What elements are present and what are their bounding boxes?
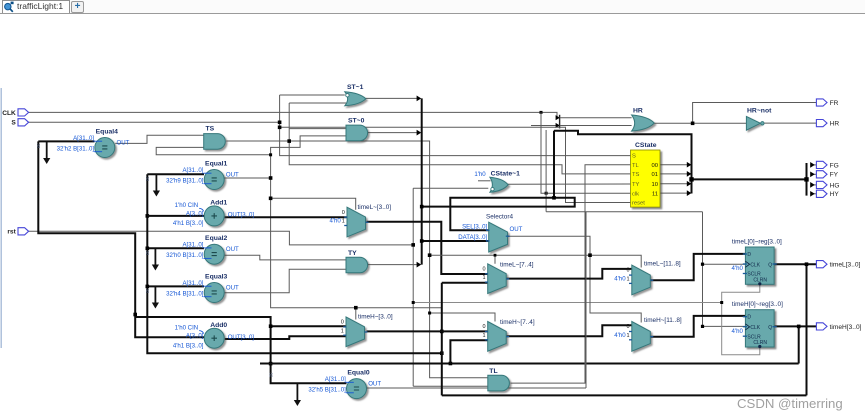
svg-text:Add1: Add1 (210, 200, 227, 207)
svg-text:Add0: Add0 (210, 322, 227, 329)
svg-text:32: 32 (145, 177, 150, 182)
svg-text:A[31..0]: A[31..0] (182, 280, 203, 287)
svg-text:32'h2 B[31..0]: 32'h2 B[31..0] (57, 146, 95, 153)
svg-text:0: 0 (342, 210, 345, 216)
svg-text:OUT: OUT (368, 380, 381, 387)
svg-text:OUT: OUT (117, 139, 130, 146)
svg-text:timeH~[7..4]: timeH~[7..4] (500, 319, 535, 326)
svg-text:01: 01 (652, 172, 658, 178)
svg-text:S: S (11, 120, 16, 127)
svg-text:1: 1 (482, 275, 485, 281)
svg-text:Equal4: Equal4 (96, 129, 119, 136)
svg-text:CState~1: CState~1 (491, 170, 520, 177)
svg-text:timeH[0]~reg[3..0]: timeH[0]~reg[3..0] (732, 301, 783, 308)
svg-text:timeL~[11..8]: timeL~[11..8] (644, 261, 681, 268)
svg-text:32: 32 (145, 251, 150, 256)
svg-text:timeL[0]~reg[3..0]: timeL[0]~reg[3..0] (732, 238, 782, 245)
svg-text:timeL~[7..4]: timeL~[7..4] (500, 262, 534, 269)
svg-text:0: 0 (482, 324, 485, 330)
svg-text:HY: HY (830, 191, 840, 198)
svg-text:OUT: OUT (226, 284, 239, 291)
svg-text:Equal3: Equal3 (205, 274, 228, 281)
svg-text:FG: FG (830, 162, 839, 169)
svg-text:TL: TL (632, 163, 640, 169)
svg-text:Equal0: Equal0 (347, 370, 370, 377)
svg-text:1: 1 (627, 333, 630, 339)
svg-text:FR: FR (830, 100, 839, 107)
svg-text:timeH~[3..0]: timeH~[3..0] (358, 314, 393, 321)
svg-text:Selector4: Selector4 (486, 213, 513, 220)
svg-text:OUT[3..0]: OUT[3..0] (228, 334, 255, 341)
svg-text:4'h0: 4'h0 (732, 265, 744, 272)
svg-text:1'h0 CIN: 1'h0 CIN (175, 324, 199, 331)
svg-text:TL: TL (489, 368, 497, 375)
svg-text:4'h0: 4'h0 (329, 218, 341, 225)
svg-text:clk: clk (632, 191, 639, 197)
svg-text:1: 1 (342, 219, 345, 225)
svg-text:OUT[3..0]: OUT[3..0] (228, 212, 255, 219)
svg-text:A[31..0]: A[31..0] (325, 376, 346, 383)
svg-text:TY: TY (348, 250, 357, 257)
svg-text:OUT: OUT (510, 226, 523, 233)
svg-text:rst: rst (7, 229, 16, 236)
svg-text:timeL[3..0]: timeL[3..0] (830, 262, 861, 269)
svg-text:4'h0: 4'h0 (614, 332, 626, 339)
svg-text:4'h1 B[3..0]: 4'h1 B[3..0] (173, 342, 204, 349)
svg-text:4'h0: 4'h0 (732, 328, 744, 335)
svg-text:0: 0 (341, 320, 344, 326)
svg-text:FY: FY (830, 172, 839, 179)
svg-text:timeH~[11..8]: timeH~[11..8] (644, 317, 682, 324)
svg-text:32: 32 (145, 289, 150, 294)
svg-text:32: 32 (269, 373, 274, 378)
svg-text:A[31..0]: A[31..0] (182, 242, 203, 249)
svg-text:00: 00 (652, 163, 658, 169)
svg-text:0: 0 (627, 268, 630, 274)
svg-text:TS: TS (206, 126, 215, 133)
svg-text:TY: TY (632, 182, 640, 188)
svg-text:CLK: CLK (2, 110, 16, 117)
svg-text:Q: Q (768, 325, 772, 331)
svg-text:Equal2: Equal2 (205, 235, 228, 242)
svg-text:10: 10 (652, 182, 658, 188)
svg-text:D: D (747, 252, 751, 258)
svg-text:OUT: OUT (226, 246, 239, 253)
svg-text:A[31..0]: A[31..0] (182, 167, 203, 174)
svg-text:0: 0 (482, 266, 485, 272)
svg-text:A[31..0]: A[31..0] (73, 135, 94, 142)
svg-text:reset: reset (632, 201, 645, 207)
svg-text:4'h1 B[3..0]: 4'h1 B[3..0] (173, 220, 204, 227)
svg-text:32'h5 B[31..0]: 32'h5 B[31..0] (308, 387, 346, 394)
svg-text:OUT: OUT (226, 171, 239, 178)
svg-text:Q: Q (768, 262, 772, 268)
svg-text:S: S (632, 154, 636, 160)
svg-text:DATA[3..0]: DATA[3..0] (458, 234, 487, 241)
svg-text:ST~0: ST~0 (348, 118, 365, 125)
svg-text:A[3..0]: A[3..0] (186, 210, 204, 217)
svg-text:A[3..0]: A[3..0] (186, 333, 204, 340)
svg-text:TS: TS (632, 172, 640, 178)
svg-text:CSDN @timerring: CSDN @timerring (737, 396, 843, 411)
svg-text:timeH[3..0]: timeH[3..0] (830, 324, 862, 331)
svg-text:timeL~[3..0]: timeL~[3..0] (358, 204, 392, 211)
svg-text:HR: HR (633, 108, 643, 115)
svg-text:CState: CState (635, 142, 657, 149)
svg-text:4'h0: 4'h0 (614, 276, 626, 283)
svg-text:32'h4 B[31..0]: 32'h4 B[31..0] (166, 291, 204, 298)
svg-text:CLK: CLK (750, 325, 760, 331)
svg-text:32'h9 B[31..0]: 32'h9 B[31..0] (166, 178, 204, 185)
svg-text:1'h0: 1'h0 (474, 171, 486, 178)
svg-text:1: 1 (627, 277, 630, 283)
svg-text:1: 1 (482, 333, 485, 339)
svg-text:HR: HR (830, 121, 840, 128)
svg-text:11: 11 (652, 191, 658, 197)
svg-text:1'h0 CIN: 1'h0 CIN (175, 202, 199, 209)
svg-text:D: D (747, 315, 751, 321)
svg-text:ST~1: ST~1 (347, 84, 364, 91)
svg-text:Equal1: Equal1 (205, 161, 228, 168)
svg-text:32: 32 (36, 144, 41, 149)
svg-text:32'h0 B[31..0]: 32'h0 B[31..0] (166, 252, 204, 259)
svg-text:HG: HG (830, 182, 840, 189)
svg-text:HR~not: HR~not (747, 108, 772, 115)
svg-text:1: 1 (341, 328, 344, 334)
svg-text:SEL[3..0]: SEL[3..0] (462, 223, 487, 230)
svg-text:0: 0 (627, 324, 630, 330)
svg-text:CLK: CLK (750, 262, 760, 268)
